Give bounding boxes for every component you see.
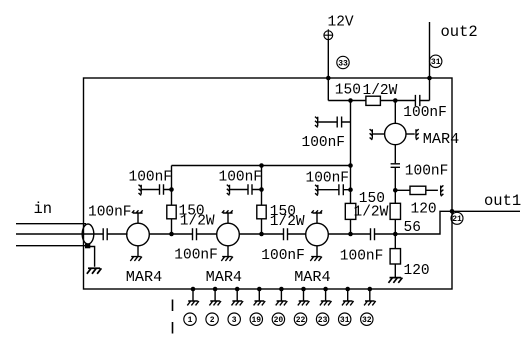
svg-text:33: 33 bbox=[338, 59, 348, 68]
ground pin 20 bbox=[276, 301, 288, 305]
wire cell3 cap leads bbox=[318, 189, 350, 191]
wire 120 to ground bbox=[394, 264, 396, 277]
wire cap to output node and out1 bbox=[375, 211, 520, 234]
svg-text:100nF: 100nF bbox=[302, 135, 346, 151]
wire pin 1 ground bbox=[192, 289, 194, 301]
node: rail cell3 bbox=[348, 163, 353, 168]
chassis hook (decoupling cap) bbox=[315, 117, 318, 128]
node: cell3 signal junction bbox=[348, 232, 353, 237]
ground (120 shunt) bbox=[388, 278, 402, 283]
chassis hook (amp4 right) bbox=[416, 129, 419, 140]
chassis hook (amp1 top) bbox=[132, 210, 143, 213]
capacitor 100nF (cell3) plates bbox=[339, 184, 343, 195]
pin node 1 bbox=[191, 287, 196, 292]
node: rail to bias chain bbox=[348, 98, 353, 103]
wire pin 19 ground bbox=[258, 289, 260, 301]
wire amp2 top lead bbox=[227, 213, 229, 223]
wire cap to amp2 bbox=[197, 233, 217, 235]
wire pin 2 ground bbox=[214, 289, 216, 301]
svg-text:22: 22 bbox=[296, 316, 306, 325]
chassis hook (amp4 left) bbox=[370, 129, 373, 140]
wire amp3 top lead bbox=[316, 213, 318, 223]
node: out1 crossing right edge bbox=[450, 209, 455, 214]
resistor 150 1/2W (cell3) bbox=[345, 203, 356, 219]
wire cap to amp3 bbox=[288, 233, 306, 235]
resistor 56 bbox=[390, 203, 400, 219]
pin circle 1 bbox=[184, 313, 196, 325]
ground pin 3 bbox=[232, 301, 244, 305]
svg-text:19: 19 bbox=[251, 316, 261, 325]
input line top bbox=[16, 223, 86, 225]
pin circle 19 bbox=[250, 313, 262, 325]
svg-text:100nF: 100nF bbox=[174, 248, 218, 264]
node: out2 crossing top edge bbox=[427, 76, 432, 81]
svg-text:in: in bbox=[34, 200, 53, 218]
supply rail y=100 left segment bbox=[328, 100, 366, 102]
wire cap to bias node bbox=[394, 168, 396, 191]
svg-text:100nF: 100nF bbox=[88, 205, 132, 221]
pin circle 20 bbox=[272, 313, 284, 325]
wire amp4 top lead bbox=[394, 101, 396, 124]
svg-text:MAR4: MAR4 bbox=[126, 268, 162, 286]
wire bias node to 120 resistor bbox=[395, 189, 410, 191]
capacitor 100nF (amp4 emitter) plates bbox=[391, 164, 400, 168]
wire amp3 ground lead bbox=[316, 246, 318, 257]
wire amp2 ground lead bbox=[227, 246, 229, 257]
wire amp4 right lead bbox=[406, 133, 415, 135]
ground pin 19 bbox=[254, 301, 266, 305]
ground pin 2 bbox=[209, 301, 221, 305]
wire 12V feed down to supply rail bbox=[327, 39, 329, 100]
wire pin 31 ground bbox=[347, 289, 349, 301]
capacitor 100nF (input) plates bbox=[103, 228, 107, 240]
svg-text:150: 150 bbox=[335, 82, 361, 98]
node: amp4 bias junction bbox=[393, 188, 398, 193]
pin node 2 bbox=[213, 287, 218, 292]
pin node 31 bbox=[345, 287, 350, 292]
amplifier U2 MAR4 bbox=[217, 223, 240, 246]
svg-text:3: 3 bbox=[232, 316, 237, 325]
pin 33 circle bbox=[337, 56, 349, 68]
svg-text:out2: out2 bbox=[441, 23, 478, 41]
wire 120 resistor to case bbox=[426, 189, 438, 191]
wire cell2 cap leads bbox=[230, 189, 262, 191]
pin node 23 bbox=[323, 287, 328, 292]
svg-text:31: 31 bbox=[340, 316, 350, 325]
svg-text:1/2W: 1/2W bbox=[270, 214, 305, 230]
wire input cap to amp1 bbox=[107, 233, 127, 235]
wire amp1 out to cell1 node bbox=[149, 233, 192, 235]
amplifier U3 MAR4 bbox=[306, 223, 329, 246]
bias rail y=165 bbox=[172, 165, 351, 167]
amplifier U4 MAR4 bbox=[385, 123, 406, 144]
wire pin 22 ground bbox=[303, 289, 305, 301]
pin 21 circle bbox=[451, 212, 463, 224]
node: rail cell2 bbox=[259, 163, 264, 168]
input line bottom bbox=[16, 245, 87, 247]
svg-text:120: 120 bbox=[404, 263, 430, 279]
pin circle 23 bbox=[316, 313, 328, 325]
wire input shield to ground bbox=[88, 247, 95, 267]
svg-text:100nF: 100nF bbox=[129, 169, 173, 185]
svg-text:100nF: 100nF bbox=[405, 164, 449, 180]
svg-text:1/2W: 1/2W bbox=[363, 83, 398, 99]
node: cell1 signal junction bbox=[169, 232, 174, 237]
wire amp1 ground lead bbox=[137, 246, 139, 257]
capacitor 100nF (amp3-output node) plates bbox=[371, 228, 375, 240]
node: amp4 feed bbox=[393, 98, 398, 103]
svg-text:21: 21 bbox=[452, 215, 462, 224]
ground (amp3) bbox=[310, 257, 322, 261]
wire amp4 bottom lead bbox=[394, 145, 396, 164]
node: cell3 cap junction bbox=[348, 187, 353, 192]
chassis hook (cell1 cap) bbox=[139, 185, 142, 196]
capacitor 100nF (amp2-amp3) plates bbox=[284, 228, 288, 240]
svg-text:56: 56 bbox=[404, 220, 421, 236]
power symbol 12V terminal bbox=[324, 31, 333, 40]
fold mark dashed line bbox=[172, 300, 174, 337]
input coax connector bbox=[82, 224, 94, 244]
capacitor 100nF (out2 coupling) plates bbox=[415, 95, 419, 106]
resistor 150 1/2W (cell2) bbox=[257, 205, 266, 219]
svg-text:100nF: 100nF bbox=[306, 171, 350, 187]
ground pin 1 bbox=[187, 301, 199, 305]
svg-text:100nF: 100nF bbox=[219, 169, 263, 185]
node: cell2 signal junction bbox=[259, 232, 264, 237]
wire amp3 out to cell3 node bbox=[328, 233, 370, 235]
wire cell2 vertical bbox=[261, 166, 263, 235]
wire pin 20 ground bbox=[280, 289, 282, 301]
chassis hook (120 resistor) bbox=[441, 185, 444, 196]
chassis hook (cell3 cap) bbox=[315, 185, 318, 196]
wire amp1 top lead bbox=[137, 213, 139, 223]
pin circle 31 bbox=[339, 313, 351, 325]
node: cell2 cap junction bbox=[259, 187, 264, 192]
svg-text:20: 20 bbox=[274, 316, 284, 325]
pin 31 circle (top) bbox=[430, 55, 442, 67]
wire amp2 out to cell2 node bbox=[239, 233, 283, 235]
chassis hook (amp2 top) bbox=[222, 210, 233, 213]
svg-text:out1: out1 bbox=[484, 192, 521, 210]
wire bias node to 56 resistor bbox=[394, 190, 396, 203]
svg-text:MAR4: MAR4 bbox=[294, 268, 330, 286]
wire pin 3 ground bbox=[236, 289, 238, 301]
wire decoupling cap leads bbox=[318, 121, 350, 123]
pin node 32 bbox=[368, 287, 373, 292]
capacitor 100nF (cell2) plates bbox=[248, 184, 252, 195]
pin circle 32 bbox=[361, 313, 373, 325]
amplifier U1 MAR4 bbox=[127, 223, 150, 246]
capacitor 100nF (amp1-amp2) plates bbox=[193, 228, 197, 240]
pin node 19 bbox=[257, 287, 262, 292]
svg-text:100nF: 100nF bbox=[340, 249, 384, 265]
wire out2 bbox=[420, 22, 430, 101]
svg-text:12V: 12V bbox=[328, 14, 354, 30]
pin node 22 bbox=[301, 287, 306, 292]
pin circle 2 bbox=[206, 313, 218, 325]
capacitor 100nF (supply decoupling) plates bbox=[337, 117, 341, 128]
ground pin 22 bbox=[298, 301, 310, 305]
ground (input shield) bbox=[87, 268, 102, 274]
svg-text:31: 31 bbox=[431, 58, 441, 67]
resistor 150 1/2W (supply) bbox=[366, 96, 381, 105]
ground pin 31 bbox=[342, 301, 354, 305]
resistor 120 (shunt) bbox=[390, 249, 400, 264]
svg-text:120: 120 bbox=[411, 201, 437, 217]
pin node 3 bbox=[235, 287, 240, 292]
wire bias vertical x=350 bbox=[350, 101, 352, 235]
chassis hook (amp3 top) bbox=[311, 210, 322, 213]
pin circle 22 bbox=[294, 313, 306, 325]
ground (amp1) bbox=[130, 257, 142, 261]
resistor 120 (bias, horizontal) bbox=[410, 186, 426, 194]
svg-text:32: 32 bbox=[362, 316, 372, 325]
input line center bbox=[16, 233, 103, 235]
capacitor 100nF (cell1) plates bbox=[160, 184, 164, 195]
svg-text:100nF: 100nF bbox=[261, 248, 305, 264]
svg-text:MAR4: MAR4 bbox=[423, 130, 459, 148]
pin circle 3 bbox=[228, 313, 240, 325]
ground (amp2) bbox=[221, 257, 233, 261]
wire pin 32 ground bbox=[369, 289, 371, 301]
svg-text:23: 23 bbox=[318, 316, 328, 325]
ground pin 23 bbox=[320, 301, 332, 305]
wire rail after resistor bbox=[380, 100, 415, 102]
resistor 150 1/2W (cell1) bbox=[167, 205, 176, 219]
wire 56 to output node to 120 bbox=[394, 219, 396, 248]
wire cell1 vertical bbox=[171, 166, 173, 235]
svg-text:1: 1 bbox=[188, 316, 193, 325]
pin node 20 bbox=[279, 287, 284, 292]
node: output junction bbox=[393, 232, 398, 237]
ground pin 32 bbox=[364, 301, 376, 305]
svg-text:2: 2 bbox=[210, 316, 215, 325]
wire cell1 cap leads bbox=[142, 189, 172, 191]
wire amp4 left lead bbox=[373, 133, 385, 135]
node: cell1 cap junction bbox=[169, 187, 174, 192]
svg-text:1/2W: 1/2W bbox=[354, 205, 389, 221]
svg-text:1/2W: 1/2W bbox=[180, 213, 215, 229]
svg-text:100nF: 100nF bbox=[403, 105, 447, 121]
chassis hook (cell2 cap) bbox=[227, 185, 230, 196]
svg-text:MAR4: MAR4 bbox=[206, 268, 242, 286]
module enclosure box bbox=[84, 78, 453, 289]
node: input shield bbox=[85, 244, 90, 249]
wire pin 23 ground bbox=[325, 289, 327, 301]
node: 12V crossing top edge bbox=[326, 76, 331, 81]
